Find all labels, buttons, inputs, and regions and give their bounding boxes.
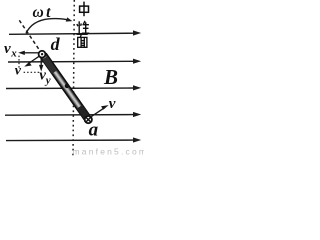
field line B4 (5, 112, 141, 117)
rod ad (40, 53, 90, 120)
dashed rod extension line (19, 20, 40, 51)
char 性 (77, 21, 89, 34)
svg-text:ωt: ωt (33, 4, 53, 21)
char 面 (77, 34, 88, 47)
velocity arrow v at a (91, 105, 108, 117)
dashed horizontal (v tip to vy tip) (24, 71, 42, 73)
svg-text:manfen5.com: manfen5.com (73, 146, 145, 156)
field line B3 (6, 85, 141, 90)
rotation axis dot (65, 84, 69, 88)
svg-text:x: x (10, 47, 17, 59)
omega-t arc arrow (26, 17, 72, 33)
char 中 (80, 2, 89, 17)
vy arrow at d (39, 58, 43, 72)
circle at a (cross symbol) (85, 116, 92, 123)
svg-text:B: B (103, 65, 118, 89)
field line B1 (9, 30, 141, 35)
neutral plane dotted line (73, 0, 74, 157)
svg-text:a: a (89, 119, 99, 140)
vx arrow at d (18, 51, 38, 55)
svg-text:v: v (15, 64, 22, 79)
dashed vertical (vx tip down) (18, 56, 20, 69)
v arrow at d (resultant) (24, 56, 39, 66)
svg-text:v: v (4, 41, 11, 57)
field line B2 (8, 59, 141, 64)
field line B5 (6, 137, 141, 142)
svg-text:v: v (109, 96, 116, 112)
svg-text:y: y (44, 75, 51, 87)
circle at d (dot symbol) (39, 51, 46, 58)
svg-text:d: d (51, 34, 61, 54)
